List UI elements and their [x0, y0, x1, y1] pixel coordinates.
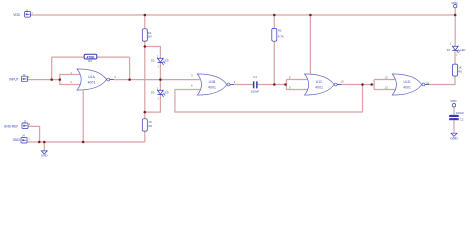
label U1A [88, 75, 96, 84]
wire GND bottom rail [27, 141, 145, 143]
pin 1 of D3 [158, 96, 160, 100]
pin 9 of U1C [289, 85, 291, 89]
label U1C [315, 80, 323, 89]
label J4 [22, 133, 25, 137]
label GND-REF [4, 124, 19, 128]
node U1C VDD line rail junction [309, 14, 312, 17]
label R3 value [86, 55, 95, 63]
label J2 [23, 73, 26, 77]
op-amp U1D NOR gate 4001 [392, 74, 429, 95]
power VDD decoupling [452, 104, 455, 107]
label VDD decoupling [450, 99, 457, 103]
svg-text:6: 6 [191, 83, 193, 87]
svg-text:GND-REF: GND-REF [4, 124, 19, 128]
wire feedback top R3 [52, 56, 130, 58]
label VDD net top left [13, 13, 20, 17]
wire C1 to U1C inputs [258, 84, 287, 86]
wire D2 to D3 through node [159, 63, 161, 91]
connector J4 GND [21, 138, 27, 144]
svg-text:C2: C2 [460, 117, 464, 121]
label R2 value [278, 29, 284, 39]
svg-text:R2: R2 [278, 29, 282, 33]
svg-text:U1D: U1D [404, 80, 411, 84]
pin 2 of U1A [70, 80, 72, 84]
wire feedback left leg [51, 57, 53, 80]
node VDD rail right corner junction [454, 14, 457, 17]
wire branch to D2 top [145, 47, 161, 59]
svg-text:1: 1 [28, 75, 30, 79]
wire D1 to R6 [454, 51, 456, 64]
label R1 value [148, 31, 153, 39]
svg-text:4.7K: 4.7K [278, 35, 284, 39]
capacitor C1 [253, 81, 258, 88]
LED D2 [158, 58, 166, 65]
wire U1A output to U1B pin5 [113, 79, 199, 81]
svg-text:LED: LED [164, 58, 169, 62]
wire INPUT to U1A [28, 79, 60, 81]
wire U1D input bracket [374, 80, 396, 90]
resistor R6 [453, 64, 458, 76]
wire U1C VDD line from rail [309, 15, 311, 74]
svg-text:12: 12 [385, 75, 389, 79]
svg-text:GND: GND [450, 137, 458, 141]
svg-text:VDD: VDD [451, 1, 458, 5]
svg-text:1: 1 [158, 96, 160, 100]
wire GND symbol stub [43, 142, 45, 151]
svg-text:4001: 4001 [208, 85, 216, 89]
node U1A output junction [128, 78, 131, 81]
wire U1C input bracket [287, 80, 309, 90]
svg-text:D3: D3 [151, 90, 155, 94]
svg-text:1M: 1M [148, 35, 153, 39]
label VDD top right [451, 1, 458, 5]
node R1-VDD rail junction [144, 14, 147, 17]
svg-text:1: 1 [29, 122, 31, 126]
wire VDD rail to D1 [454, 8, 456, 46]
connector J3 GND-REF [22, 123, 28, 129]
wire U1B pin6 feedback from U1C output [175, 85, 363, 113]
svg-text:LED: LED [164, 90, 169, 94]
svg-text:2: 2 [157, 54, 159, 58]
node D3-R5 junction [144, 111, 147, 114]
label D1 [447, 48, 451, 52]
label U1B [208, 80, 216, 89]
svg-text:1: 1 [456, 53, 458, 57]
svg-text:4001: 4001 [403, 85, 411, 89]
svg-text:100nF: 100nF [251, 89, 259, 93]
node diode chain junction [159, 78, 162, 81]
pin 4 of U1B [234, 80, 236, 84]
svg-text:2: 2 [157, 86, 159, 90]
power VDD top right [454, 4, 457, 7]
op-amp U1A NOR gate 4001 [77, 69, 114, 90]
label D3 value [164, 90, 169, 94]
label R6 value [458, 65, 462, 73]
label R5 value [148, 120, 152, 128]
connector J1 VDD [25, 12, 31, 18]
op-amp U1B NOR gate 4001 [197, 74, 234, 95]
connector J2 INPUT [22, 76, 28, 82]
svg-text:INPUT: INPUT [9, 78, 19, 82]
pin 12 of U1D [385, 75, 389, 79]
wire R1 bottom vertical run to R5 [144, 41, 146, 119]
node GND-REF rail junction [38, 141, 41, 144]
pin 1 of J1 [31, 11, 33, 15]
label J1 [26, 9, 29, 13]
pin 6 of U1B [191, 83, 193, 87]
node U1D bracket junction [370, 83, 373, 86]
svg-text:10: 10 [341, 80, 345, 84]
label U1D [403, 80, 411, 89]
label GND right [450, 137, 458, 141]
op-amp U1C NOR gate 4001 [305, 74, 342, 95]
svg-text:VDD: VDD [450, 99, 457, 103]
svg-text:R5: R5 [148, 124, 152, 128]
wire GND-REF connector to rail [28, 126, 40, 142]
label J3 [24, 120, 27, 124]
resistor R1 [142, 29, 147, 41]
svg-text:11: 11 [426, 81, 429, 85]
label D1 value [460, 48, 465, 52]
capacitor C2 [449, 115, 459, 120]
svg-text:J4: J4 [22, 133, 25, 137]
svg-text:R6: R6 [458, 69, 462, 73]
pin 1 of U1A [70, 71, 72, 75]
pin 1 of J4 [28, 136, 30, 140]
svg-text:5: 5 [191, 73, 193, 77]
wire U1B output to C1 [234, 84, 253, 86]
resistor R3 [84, 54, 97, 59]
svg-text:2: 2 [70, 80, 72, 84]
pin 1 of D2 [158, 65, 160, 69]
label GND left [41, 154, 49, 158]
wire U1C output to U1D [341, 84, 374, 86]
label D2 [151, 58, 155, 62]
wire feedback right leg [129, 57, 131, 80]
label D3 [151, 90, 155, 94]
pin 1 of D1 [456, 53, 458, 57]
node GND symbol rail junction [43, 141, 46, 144]
node R1-D2 branch junction [144, 45, 147, 48]
node U1A input bracket junction [59, 78, 62, 81]
wire R1 top lead [144, 15, 146, 29]
pin 1 of J2 [28, 75, 30, 79]
svg-text:8: 8 [289, 75, 291, 79]
wire U1A input bracket [60, 75, 82, 85]
node U1A ground rail junction [82, 141, 85, 144]
label C2 [456, 111, 464, 121]
svg-text:U1C: U1C [316, 80, 323, 84]
svg-text:3: 3 [114, 75, 116, 79]
svg-text:GND: GND [13, 138, 21, 142]
svg-text:D1: D1 [447, 48, 451, 52]
pin 8 of U1C [289, 75, 291, 79]
node R2-C1-U1C junction [273, 83, 276, 86]
pin 2 of D1 [450, 41, 452, 45]
svg-text:LED: LED [460, 48, 465, 52]
pin 1 of J3 [29, 122, 31, 126]
svg-text:9: 9 [289, 85, 291, 89]
svg-text:1: 1 [158, 65, 160, 69]
node U1C output junction [361, 83, 364, 86]
ground symbol right [451, 133, 457, 136]
pin 11 of U1D [426, 81, 429, 85]
resistor R2 [272, 28, 277, 41]
label D2 value [164, 58, 169, 62]
pin 10 of U1C [341, 80, 345, 84]
svg-text:U1A: U1A [88, 75, 95, 79]
wire U1D output to R6 [429, 76, 455, 85]
wire D3 bottom to vertical run [145, 95, 161, 112]
svg-text:4001: 4001 [315, 85, 323, 89]
node R2-VDD rail junction [273, 14, 276, 17]
svg-text:D2: D2 [151, 58, 155, 62]
svg-text:4001: 4001 [88, 80, 96, 84]
label GND net [13, 138, 21, 142]
node input-feedback junction [50, 78, 53, 81]
label C1 [251, 75, 259, 93]
svg-text:4: 4 [234, 80, 236, 84]
resistor R5 [142, 119, 147, 131]
ground symbol left [41, 151, 47, 154]
pin 2 of D3 [157, 86, 159, 90]
pin 3 of U1A [114, 75, 116, 79]
node U1C bracket junction [284, 83, 287, 86]
pin 13 of U1D [385, 85, 389, 89]
wire U1A ground line [82, 91, 84, 143]
svg-text:VDD: VDD [13, 13, 20, 17]
pin 5 of U1B [191, 73, 193, 77]
wire C2 to GND [453, 120, 455, 133]
LED D1 [452, 46, 460, 53]
wire R2 bottom lead [273, 41, 275, 84]
wire VDD2 to C2 [453, 107, 455, 115]
svg-text:GND: GND [41, 154, 49, 158]
wire R2 top lead [273, 15, 275, 28]
svg-text:C1: C1 [253, 75, 257, 79]
svg-text:U1B: U1B [209, 80, 216, 84]
svg-text:2: 2 [450, 41, 452, 45]
LED D3 [158, 90, 166, 97]
svg-text:1: 1 [28, 136, 30, 140]
wire VDD top rail [31, 14, 456, 16]
svg-text:R3: R3 [88, 59, 92, 63]
wire R5 bottom lead [144, 131, 146, 142]
svg-text:13: 13 [385, 85, 389, 89]
svg-text:100nF: 100nF [456, 111, 464, 115]
label INPUT [9, 78, 19, 82]
pin 2 of D2 [157, 54, 159, 58]
